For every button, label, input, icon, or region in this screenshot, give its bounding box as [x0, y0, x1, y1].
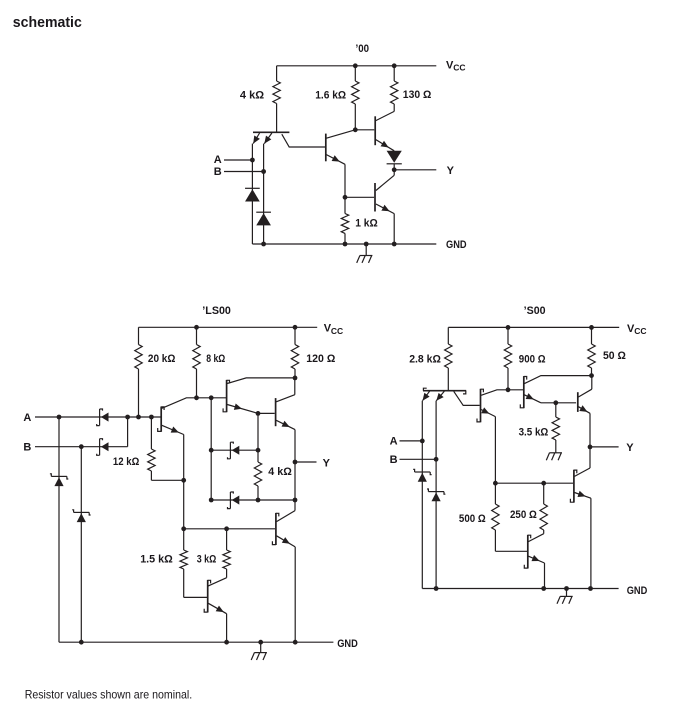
svg-text:500 Ω: 500 Ω [459, 513, 486, 525]
node GND symbol tap ('LS00) [258, 640, 263, 645]
node 4k top ('LS00) [256, 448, 261, 453]
node GND Q5 ('S00) [588, 586, 593, 591]
transistor Q5 collector ('S00) [575, 468, 591, 476]
GND rail wire ('S00) [422, 588, 618, 590]
node GND symbol tap ('00) [364, 242, 369, 247]
output Y wire ('S00) [590, 446, 619, 448]
transistor Q1 emitter 2 ('S00) [436, 391, 444, 588]
transistor Q1 collector ('S00) [454, 391, 480, 405]
label 12 k&#937; ('LS00) [113, 456, 140, 468]
svg-text:4 kΩ: 4 kΩ [240, 90, 264, 102]
transistor Q3 emitter ('S00) [524, 393, 576, 403]
label 3.5 k&#937; ('S00) [519, 427, 549, 439]
label B ('LS00) [23, 441, 31, 453]
transistor Q3 base bar ('S00) [520, 376, 526, 408]
transistor Q2 collector ('LS00) [227, 378, 295, 384]
resistor 1.5 k&#937; ('LS00) [180, 529, 207, 598]
transistor Q1 emitter 2 ('00) [264, 133, 272, 244]
svg-text:3 kΩ: 3 kΩ [197, 554, 217, 566]
node VCC 8k ('LS00) [194, 325, 199, 330]
node GND Q5 ('LS00) [224, 640, 229, 645]
node B ('S00) [434, 457, 439, 462]
label Y ('LS00) [323, 457, 331, 469]
label A ('LS00) [23, 412, 31, 424]
transistor Q1 collector wire ('00) [282, 134, 325, 147]
label 1 k&#937; ('00) [355, 217, 378, 229]
node lower diode left ('LS00) [209, 498, 214, 503]
node Q2 emitter / 1k top ('00) [343, 195, 348, 200]
label Y ('S00) [626, 442, 634, 454]
transistor Q5 collector ('LS00) [208, 578, 226, 586]
svg-text:A: A [214, 154, 222, 166]
node VCC 120 ('LS00) [293, 325, 298, 330]
svg-text:schematic: schematic [13, 15, 82, 31]
transistor Q2 base wire ('LS00) [197, 397, 227, 399]
label GND ('00) [446, 239, 467, 251]
label 130 &#937; ('00) [403, 89, 432, 101]
input A wire ('00) [224, 159, 252, 161]
VCC rail wire ('00) [277, 65, 437, 67]
svg-text:B: B [23, 441, 31, 453]
node B clamp tap ('LS00) [79, 444, 84, 449]
svg-text:’00: ’00 [356, 43, 370, 55]
input A wire ('S00) [400, 440, 423, 442]
label B ('S00) [390, 454, 398, 466]
node 250 top ('S00) [541, 481, 546, 486]
transistor Q3 emitter ('00) [376, 140, 394, 151]
node 20k bottom ('LS00) [136, 415, 141, 420]
label 4 k&#937; ('LS00) [268, 466, 292, 478]
transistor Q6 emitter ('S00) [528, 555, 544, 589]
node VCC 50 ('S00) [589, 325, 594, 330]
svg-text:B: B [214, 166, 222, 178]
diode D3 schottky squaring upper ('LS00) [228, 442, 240, 459]
resistor 2.8 k&#937; ('S00) [445, 327, 452, 390]
svg-text:GND: GND [337, 638, 358, 650]
ground symbol 3.5k ('S00) [546, 453, 562, 460]
transistor Q1 emitter ('LS00) [162, 425, 184, 529]
transistor Q2 emitter ('LS00) [227, 404, 258, 414]
label 500 &#937; ('S00) [459, 513, 486, 525]
node Q1 emitter to base wire ('LS00) [181, 526, 186, 531]
transistor Q6 base bar ('S00) [524, 535, 530, 569]
node: 130 top junction ('00) [392, 63, 397, 68]
node squaring tap ('LS00) [209, 395, 214, 400]
transistor Q4 collector ('00) [376, 175, 394, 190]
node 12k top ('LS00) [149, 415, 154, 420]
transistor Q2 base bar ('00) [325, 134, 327, 162]
transistor Q5 base bar ('LS00) [204, 580, 210, 613]
circuit title '00 [356, 43, 370, 55]
svg-text:120 Ω: 120 Ω [306, 353, 335, 365]
resistor 20 k&#937; ('LS00) [135, 327, 142, 417]
node A ('00) [250, 158, 255, 163]
transistor Q1 base bar ('LS00) [158, 407, 164, 432]
node A ('S00) [420, 439, 425, 444]
node B ('00) [261, 169, 266, 174]
resistor 4 k&#937; ('LS00) [254, 413, 261, 500]
label 900 &#937; ('S00) [519, 354, 546, 366]
svg-text:1.5 kΩ: 1.5 kΩ [140, 554, 173, 566]
transistor Q4 emitter ('S00) [578, 405, 590, 468]
transistor Q4 emitter ('LS00) [277, 536, 296, 642]
svg-text:A: A [23, 412, 31, 424]
output Y wire ('00) [394, 169, 436, 171]
label A ('S00) [390, 436, 398, 448]
transistor Q1 base bar ('00) [253, 131, 289, 133]
svg-text:GND: GND [627, 585, 648, 597]
node 4k bottom ('LS00) [256, 498, 261, 503]
wire upper diode ('LS00) [211, 449, 258, 451]
VCC label ('LS00) [324, 323, 343, 336]
wire squaring vertical ('LS00) [210, 398, 212, 500]
transistor Q5 base bar ('S00) [570, 470, 576, 503]
node A clamp tap ('LS00) [57, 415, 62, 420]
GND rail wire ('00) [252, 243, 436, 245]
transistor Q5 base wire ('S00) [495, 482, 573, 484]
node 120 bottom ('LS00) [293, 376, 298, 381]
diode D1 input clamp A ('00) [245, 188, 260, 201]
transistor Q3 collector ('LS00) [276, 378, 295, 402]
diode D3 output level shift ('00) [387, 151, 402, 164]
transistor Q3 collector ('00) [376, 111, 394, 120]
node GND B ('S00) [434, 586, 439, 591]
transistor Q3 base bar ('00) [374, 116, 376, 145]
diode clamp B schottky ('S00) [427, 489, 445, 501]
wire D3 to Y node ('00) [393, 164, 395, 176]
transistor Q3 emitter ('LS00) [276, 420, 295, 510]
svg-text:B: B [390, 454, 398, 466]
diode clamp A schottky ('S00) [413, 469, 431, 481]
circuit title 'LS00 [202, 305, 231, 317]
node Q2 collector junction ('00) [353, 127, 358, 132]
node 500 top ('S00) [493, 481, 498, 486]
node: 1.6k top junction ('00) [353, 63, 358, 68]
svg-text:’LS00: ’LS00 [202, 305, 231, 317]
svg-text:CC: CC [634, 326, 646, 336]
node upper diode left ('LS00) [209, 448, 214, 453]
transistor Q5 emitter ('LS00) [208, 603, 226, 642]
transistor Q4 collector ('S00) [578, 376, 591, 397]
svg-text:’S00: ’S00 [524, 305, 546, 317]
svg-text:4 kΩ: 4 kΩ [268, 466, 292, 478]
output Y wire ('LS00) [295, 461, 317, 463]
label 120 &#937; ('LS00) [306, 353, 335, 365]
diode clamp A schottky ('LS00) [50, 474, 68, 486]
node GND output ('LS00) [293, 640, 298, 645]
node 50 bottom ('S00) [589, 373, 594, 378]
transistor Q3 base wire ('LS00) [258, 412, 275, 414]
transistor Q2 collector ('00) [326, 130, 355, 138]
label 2.8 k&#937; ('S00) [409, 354, 441, 366]
transistor Q5 emitter ('S00) [575, 491, 591, 589]
svg-text:3.5 kΩ: 3.5 kΩ [519, 427, 549, 439]
diode D4 schottky squaring lower ('LS00) [228, 492, 240, 509]
resistor 12 k&#937; ('LS00) [148, 417, 184, 480]
label 250 &#937; ('S00) [510, 509, 537, 521]
node Q2 emitter E2 ('LS00) [256, 411, 261, 416]
wire A clamp branch ('LS00) [58, 417, 60, 642]
resistor 130 &#937; ('00) [391, 66, 398, 112]
svg-text:50 Ω: 50 Ω [603, 350, 626, 362]
transistor Q3 base wire ('00) [355, 129, 374, 131]
node GND 1k ('00) [343, 242, 348, 247]
svg-text:12 kΩ: 12 kΩ [113, 456, 140, 468]
diode D2 input clamp B ('00) [256, 212, 271, 225]
wire lower diode ('LS00) [211, 499, 295, 501]
input B wire ('S00) [400, 458, 437, 460]
resistor 1 k&#937; ('00) [341, 197, 348, 244]
resistor 250 &#937; ('S00) [540, 483, 547, 534]
label B ('00) [214, 166, 222, 178]
node Y ('LS00) [293, 460, 298, 465]
label 50 &#937; ('S00) [603, 350, 626, 362]
node 900 bottom ('S00) [506, 387, 511, 392]
label GND ('LS00) [337, 638, 358, 650]
page title text [13, 15, 82, 31]
resistor 50 &#937; ('S00) [588, 327, 595, 375]
GND rail wire ('LS00) [59, 641, 333, 643]
label 1.6 k&#937; ('00) [315, 90, 346, 102]
svg-text:2.8 kΩ: 2.8 kΩ [409, 354, 441, 366]
VCC rail wire ('S00) [448, 326, 619, 328]
node GND Q4 emitter ('00) [392, 242, 397, 247]
svg-text:Y: Y [323, 457, 331, 469]
resistor 3.5 k&#937; ('S00) [552, 403, 559, 453]
resistor 900 &#937; ('S00) [504, 327, 511, 389]
svg-text:20 kΩ: 20 kΩ [148, 353, 176, 365]
transistor Q4 base bar ('00) [374, 183, 376, 212]
transistor Q2 emitter ('S00) [481, 407, 495, 483]
node 8k bottom ('LS00) [194, 395, 199, 400]
svg-text:A: A [390, 436, 398, 448]
label A ('00) [214, 154, 222, 166]
transistor Q2 collector ('S00) [481, 390, 523, 396]
node GND Q6 ('S00) [541, 586, 546, 591]
diode DB schottky input B ('LS00) [97, 439, 109, 456]
node Y ('00) [392, 167, 397, 172]
svg-text:CC: CC [331, 326, 343, 336]
transistor Q1 base bar ('S00) [423, 388, 466, 394]
svg-text:Y: Y [626, 442, 634, 454]
transistor Q2 base bar ('S00) [477, 389, 483, 423]
label 3 k&#937; ('LS00) [197, 554, 217, 566]
svg-text:1.6 kΩ: 1.6 kΩ [315, 90, 346, 102]
node Y ('S00) [588, 445, 593, 450]
svg-text:1 kΩ: 1 kΩ [355, 217, 378, 229]
transistor Q4 base bar ('LS00) [272, 513, 278, 545]
label Y ('00) [447, 165, 455, 177]
node 3k top ('LS00) [224, 526, 229, 531]
svg-text:130 Ω: 130 Ω [403, 89, 432, 101]
diode DA schottky input A ('LS00) [97, 409, 109, 426]
transistor Q1 emitter 1 ('S00) [422, 391, 429, 588]
svg-text:GND: GND [446, 239, 467, 251]
label 20 k&#937; ('LS00) [148, 353, 176, 365]
wire B clamp branch ('LS00) [80, 447, 82, 643]
resistor 1.6 k&#937; ('00) [352, 66, 359, 130]
VCC label ('00) [446, 60, 465, 73]
VCC rail wire ('LS00) [139, 326, 318, 328]
resistor 500 &#937; ('S00) [492, 483, 528, 551]
node GND B-branch ('00) [261, 242, 266, 247]
node GND symbol tap ('S00) [564, 586, 569, 591]
svg-text:8 kΩ: 8 kΩ [206, 353, 225, 365]
transistor Q3 collector ('S00) [524, 376, 591, 384]
input B wire ('LS00) [35, 417, 128, 447]
label 4 k&#937; ('00) [240, 90, 264, 102]
input A wire ('LS00) [35, 416, 161, 418]
label 8 k&#937; ('LS00) [206, 353, 225, 365]
transistor Q2 base bar ('LS00) [223, 380, 229, 412]
resistor 8 k&#937; ('LS00) [193, 327, 200, 398]
node 12k to Q1 emitter ('LS00) [181, 478, 186, 483]
transistor Q1 collector ('LS00) [162, 398, 197, 409]
transistor Q1 emitter 1 ('00) [252, 133, 260, 244]
resistor 120 &#937; ('LS00) [291, 327, 298, 378]
resistor 4 k&#937; ('00) [273, 66, 280, 133]
transistor Q4 base wire ('LS00) [184, 528, 275, 530]
transistor Q6 collector ('S00) [528, 534, 543, 542]
svg-text:Y: Y [447, 165, 455, 177]
diode clamp B schottky ('LS00) [72, 510, 90, 522]
ground symbol ('00) [357, 244, 373, 263]
transistor Q3 base bar ('LS00) [275, 398, 277, 426]
resistor 3 k&#937; ('LS00) [223, 529, 230, 578]
transistor Q4 collector ('LS00) [277, 511, 296, 522]
footnote text [25, 687, 193, 701]
transistor Q2 emitter ('00) [326, 155, 345, 198]
svg-text:900 Ω: 900 Ω [519, 354, 546, 366]
svg-text:250 Ω: 250 Ω [510, 509, 537, 521]
node B riser junction ('LS00) [125, 415, 130, 420]
input B wire ('00) [224, 171, 264, 173]
node 3.5k top ('S00) [553, 400, 558, 405]
transistor Q4 base wire ('00) [345, 196, 374, 198]
node VCC 900 ('S00) [506, 325, 511, 330]
label GND ('S00) [627, 585, 648, 597]
VCC label ('S00) [627, 323, 646, 336]
node GND B clamp ('LS00) [79, 640, 84, 645]
svg-text:Resistor values shown are nomi: Resistor values shown are nominal. [25, 687, 193, 701]
transistor Q4 emitter ('00) [376, 204, 394, 244]
node output junction lower ('LS00) [293, 498, 298, 503]
ground symbol ('S00) [557, 589, 573, 604]
transistor Q4 base bar ('S00) [577, 392, 579, 412]
ground symbol ('LS00) [251, 642, 267, 660]
label 1.5 k&#937; ('LS00) [140, 554, 173, 566]
svg-text:CC: CC [453, 63, 465, 73]
circuit title 'S00 [524, 305, 546, 317]
